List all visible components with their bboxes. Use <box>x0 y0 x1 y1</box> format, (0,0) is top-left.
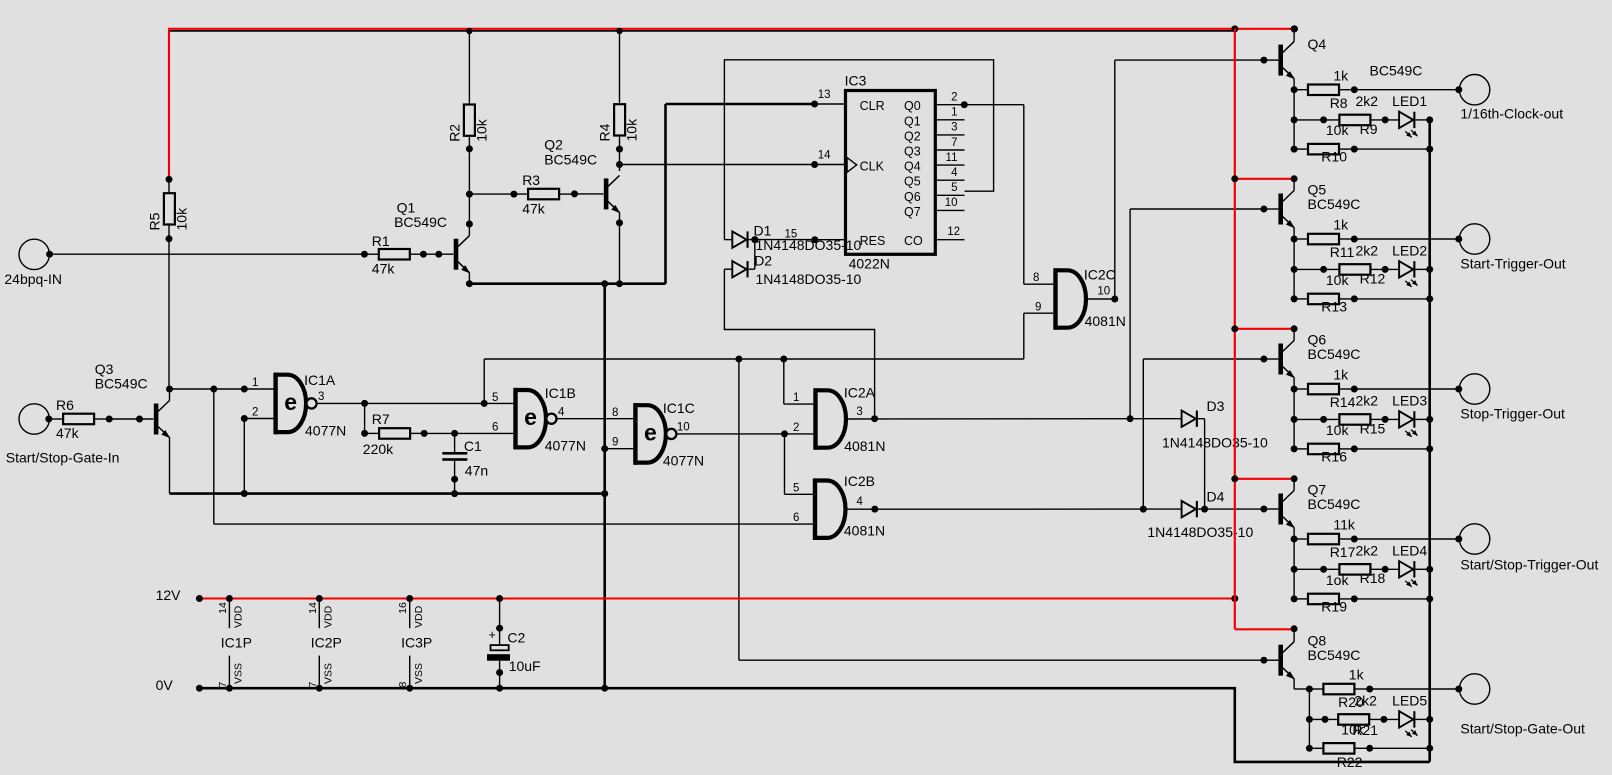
svg-text:BC549C: BC549C <box>1308 647 1361 663</box>
node Q3 base pin <box>136 416 143 423</box>
svg-text:R18: R18 <box>1360 570 1386 586</box>
node R5 bottom <box>166 235 173 242</box>
svg-text:4081N: 4081N <box>844 438 885 454</box>
svg-text:10k: 10k <box>1326 122 1350 138</box>
node R18 left pin <box>1320 566 1327 573</box>
wire +12V top rail (red) <box>168 30 170 179</box>
svg-text:BC549C: BC549C <box>1308 496 1361 512</box>
svg-text:IC2A: IC2A <box>844 385 876 401</box>
node Q5 row2 left <box>1291 266 1298 273</box>
node LED1 cathode bus <box>1426 116 1433 123</box>
svg-text:3: 3 <box>318 391 324 403</box>
svg-text:CLR: CLR <box>860 99 885 113</box>
svg-text:R6: R6 <box>56 397 74 413</box>
node Q5 collector <box>1291 175 1298 182</box>
svg-text:2: 2 <box>951 92 957 104</box>
connector Start/Stop-Gate-In <box>19 404 49 434</box>
node R22 on bus <box>1426 745 1433 752</box>
node Q4 emitter row <box>1291 86 1298 93</box>
capacitor C1 47n <box>454 433 456 452</box>
node Q8 row2 left <box>1306 716 1313 723</box>
node R7 top tee <box>361 400 368 407</box>
svg-text:Start-Trigger-Out: Start-Trigger-Out <box>1460 256 1565 272</box>
wire R6 to Q3 base <box>109 418 153 420</box>
node R2/R3 junction <box>466 191 473 198</box>
wire 0V rail <box>199 688 1429 762</box>
wire top rail lower black line <box>170 30 1235 32</box>
node Q6 row3 left <box>1291 445 1298 452</box>
svg-text:D2: D2 <box>754 252 772 268</box>
svg-text:BC549C: BC549C <box>1370 63 1423 79</box>
wire LED2 cathode <box>1415 268 1429 270</box>
node Q5 row3 left <box>1291 295 1298 302</box>
svg-text:RES: RES <box>860 234 886 248</box>
svg-text:12V: 12V <box>156 587 182 603</box>
svg-text:VDD: VDD <box>413 605 425 628</box>
xnor gate IC1C 4077N <box>633 403 637 465</box>
node IC2A out / Q5 branch <box>1127 415 1134 422</box>
node R14 right <box>1351 386 1358 393</box>
wire Q8 base stub <box>1264 659 1279 661</box>
node R22 right <box>1366 745 1373 752</box>
node C1 bottom pin <box>451 476 458 483</box>
wire IC2A output <box>847 418 1182 420</box>
connector 1/16th-Clock-out <box>1459 75 1489 105</box>
node feedback / IC2A pin1 branch <box>780 356 787 363</box>
svg-text:Q5: Q5 <box>904 175 921 189</box>
node R5 top <box>166 176 173 183</box>
and gate IC2A 4081N <box>813 388 817 450</box>
node D1 cathode <box>751 236 758 243</box>
node R19 on bus <box>1426 595 1433 602</box>
node Q0 pin <box>961 101 968 108</box>
svg-text:+: + <box>489 628 496 642</box>
node R13 right <box>1351 295 1358 302</box>
wire C1 to bus <box>454 479 456 493</box>
connector Start-Trigger-Out <box>1459 224 1489 254</box>
svg-text:BC549C: BC549C <box>544 152 597 168</box>
svg-text:9: 9 <box>612 437 618 449</box>
diode D1 1N4148 <box>732 231 746 247</box>
xnor gate IC1A 4077N <box>273 373 277 435</box>
diode D3 1N4148 <box>1182 411 1196 427</box>
svg-text:2k2: 2k2 <box>1354 692 1377 708</box>
svg-text:8: 8 <box>612 407 618 419</box>
svg-text:VDD: VDD <box>233 605 245 628</box>
wire R8 to connector <box>1354 89 1459 91</box>
svg-text:R1: R1 <box>372 233 390 249</box>
wire IC3 CLR pin stub <box>815 103 846 105</box>
wire Q8 base drop <box>738 359 740 660</box>
svg-text:Q7: Q7 <box>904 205 921 219</box>
node LED2 cathode bus <box>1426 266 1433 273</box>
node LED3 cathode bus <box>1426 416 1433 423</box>
svg-text:D4: D4 <box>1207 489 1225 505</box>
transistor Q8 BC549C <box>1278 645 1283 676</box>
resistor R14 1k <box>1308 384 1339 395</box>
led LED2 <box>1399 261 1413 277</box>
wire R10 to cathode bus <box>1354 148 1429 150</box>
node Q7 collector <box>1291 475 1298 482</box>
node R15 right pin <box>1382 416 1389 423</box>
node IC2C out <box>1111 296 1118 303</box>
node Q6 row2 left <box>1291 416 1298 423</box>
wire D1 cathode to RES <box>749 239 815 241</box>
svg-text:VSS: VSS <box>323 663 335 684</box>
svg-text:R22: R22 <box>1337 754 1363 770</box>
wire Q6 feedback loop <box>724 60 993 240</box>
wire branch to IC2B pin6 <box>213 389 215 524</box>
svg-text:1: 1 <box>252 377 258 389</box>
svg-text:47n: 47n <box>465 463 488 479</box>
svg-text:Q0: Q0 <box>904 99 921 113</box>
led LED4 <box>1399 561 1413 577</box>
wire LED1 cathode <box>1415 119 1429 121</box>
wire Q6 column <box>1293 389 1295 449</box>
wire IC3 CLK pin stub <box>815 164 846 166</box>
svg-text:CLK: CLK <box>860 160 885 174</box>
node 12V to red bus <box>1231 595 1238 602</box>
svg-text:Q4: Q4 <box>1308 36 1327 52</box>
svg-text:R11: R11 <box>1330 244 1355 260</box>
node R3 right / Q2 base <box>571 190 578 197</box>
svg-text:10k: 10k <box>1326 422 1350 438</box>
svg-text:R5: R5 <box>146 212 162 230</box>
svg-text:R4: R4 <box>597 123 613 141</box>
node pin2 tie to bus <box>241 490 248 497</box>
node Q4 collector <box>1291 25 1298 32</box>
power symbol IC1P <box>226 595 233 602</box>
node red stub Q7 bus <box>1231 475 1238 482</box>
led LED5 <box>1399 711 1413 727</box>
wire LED3 cathode <box>1415 418 1429 420</box>
node R7 right <box>421 430 428 437</box>
svg-text:6: 6 <box>793 512 799 524</box>
wire row2 lead <box>1294 119 1339 121</box>
svg-text:C1: C1 <box>464 438 482 454</box>
node Q7 base <box>1260 506 1267 513</box>
svg-text:1N4148DO35-10: 1N4148DO35-10 <box>1162 435 1268 451</box>
node R2 bottom pin <box>466 145 473 152</box>
wire row2 lead <box>1294 568 1339 570</box>
node R18 right pin <box>1382 566 1389 573</box>
svg-text:IC1A: IC1A <box>304 372 336 388</box>
wire Q4 base riser <box>1114 60 1116 299</box>
svg-text:1ok: 1ok <box>1326 572 1350 588</box>
svg-text:e: e <box>644 419 657 445</box>
node IC2B out <box>871 506 878 513</box>
svg-text:13: 13 <box>818 89 831 101</box>
power symbol IC3P <box>406 595 413 602</box>
node C1 top <box>451 430 458 437</box>
node R3 left <box>510 191 517 198</box>
node R16 on bus <box>1426 445 1433 452</box>
svg-text:1k: 1k <box>1333 217 1349 233</box>
svg-text:IC2C: IC2C <box>1084 267 1116 283</box>
svg-text:Q2: Q2 <box>544 137 563 153</box>
wire Q3 emitter bus (bold) <box>170 492 605 495</box>
svg-text:1k: 1k <box>1349 667 1365 683</box>
svg-text:Q2: Q2 <box>904 129 921 143</box>
node Q6 emitter row <box>1291 386 1298 393</box>
svg-text:LED3: LED3 <box>1392 392 1427 408</box>
node Q7 emitter row <box>1291 536 1298 543</box>
wire IC1A pin2 line <box>244 418 273 420</box>
wire Q4 base stub <box>1264 59 1279 61</box>
svg-text:D3: D3 <box>1207 398 1225 414</box>
wire IC1C out to IC2A pin2 <box>676 433 813 435</box>
svg-text:Start/Stop-Trigger-Out: Start/Stop-Trigger-Out <box>1460 556 1598 572</box>
node LED5 cathode bus <box>1426 716 1433 723</box>
svg-text:4: 4 <box>558 406 565 418</box>
capacitor C2 10uF <box>496 595 503 602</box>
svg-text:4081N: 4081N <box>844 523 885 539</box>
wire Q6 base riser <box>1142 359 1144 509</box>
svg-text:VSS: VSS <box>413 663 425 684</box>
node R15 left pin <box>1320 416 1327 423</box>
transistor Q5 BC549C <box>1278 194 1283 225</box>
svg-text:Q6: Q6 <box>904 190 921 204</box>
wire D3 cathode <box>1198 418 1205 420</box>
svg-text:e: e <box>524 404 537 430</box>
node R17 right <box>1351 536 1358 543</box>
svg-text:IC1B: IC1B <box>545 385 576 401</box>
svg-text:BC549C: BC549C <box>1308 346 1361 362</box>
svg-text:14: 14 <box>818 149 831 161</box>
svg-text:4: 4 <box>856 496 863 508</box>
svg-text:R3: R3 <box>522 172 540 188</box>
node top rail / R2 <box>466 28 472 34</box>
node R10 right <box>1351 146 1358 153</box>
wire LED cathode bus <box>1428 120 1431 762</box>
wire Q6 base stub <box>1264 358 1279 360</box>
svg-text:47k: 47k <box>522 201 546 217</box>
wire red stub Q6 <box>1235 328 1294 330</box>
wire IC2A pin1 drop <box>783 359 785 404</box>
svg-text:12: 12 <box>947 226 960 238</box>
svg-text:IC2B: IC2B <box>844 473 875 489</box>
wire Q0 to IC2C pin8 <box>964 104 1024 106</box>
diode D2 1N4148 <box>732 261 746 277</box>
wire row2 lead <box>1294 268 1339 270</box>
wire row2 lead <box>1294 418 1339 420</box>
wire row2 lead <box>1309 718 1338 720</box>
wire Q8 column <box>1308 689 1310 748</box>
svg-text:2: 2 <box>793 422 799 434</box>
svg-text:Q4: Q4 <box>904 160 921 174</box>
node Q4 row2 left <box>1291 116 1298 123</box>
power symbol IC2P <box>316 595 323 602</box>
svg-text:4077N: 4077N <box>305 422 346 438</box>
svg-text:8: 8 <box>1033 272 1039 284</box>
wire Q5 column <box>1293 239 1295 299</box>
node red stub Q5 bus <box>1231 175 1238 182</box>
ic IC3 4022N box <box>846 91 936 255</box>
svg-text:220k: 220k <box>363 441 394 457</box>
svg-text:Start/Stop-Gate-In: Start/Stop-Gate-In <box>6 449 120 465</box>
svg-text:LED1: LED1 <box>1392 93 1427 109</box>
node Q7 row3 left <box>1291 595 1298 602</box>
svg-text:1: 1 <box>951 107 957 119</box>
wire red stub Q7 <box>1235 478 1294 480</box>
node R12 right pin <box>1382 266 1389 273</box>
svg-text:5: 5 <box>951 182 957 194</box>
transistor Q7 BC549C <box>1278 494 1283 525</box>
node ground drop on Q3 bus <box>601 490 608 497</box>
wire IC2C pin9 riser <box>1023 313 1025 359</box>
node R1 left <box>361 251 368 258</box>
svg-text:11: 11 <box>946 152 958 164</box>
svg-text:10k: 10k <box>624 118 640 142</box>
resistor R2 <box>464 105 475 136</box>
resistor R18 2k2 <box>1339 564 1370 575</box>
wire feedback riser <box>483 359 485 403</box>
wire R1 to Q1 base <box>423 253 453 255</box>
svg-text:BC549C: BC549C <box>394 214 447 230</box>
node RES pin <box>811 236 818 243</box>
svg-text:IC2P: IC2P <box>311 635 342 651</box>
svg-text:LED2: LED2 <box>1392 242 1427 258</box>
wire Q3 collector to IC1A pin1 <box>170 388 274 390</box>
svg-text:10k: 10k <box>473 118 489 142</box>
svg-text:IC1C: IC1C <box>663 400 695 416</box>
svg-text:e: e <box>284 389 297 415</box>
wire D1-D2 cathode tie <box>754 240 756 270</box>
connector Start/Stop-Trigger-Out <box>1459 524 1489 554</box>
svg-text:2: 2 <box>252 406 258 418</box>
resistor R10 10k <box>1308 144 1339 155</box>
svg-text:5: 5 <box>492 392 498 404</box>
wire CLK line <box>620 164 815 166</box>
svg-text:9: 9 <box>1035 302 1041 314</box>
wire Q7 column <box>1293 539 1295 599</box>
node feedback / Q8 branch <box>735 356 742 363</box>
wire R16 to cathode bus <box>1354 448 1429 450</box>
resistor R9 2k2 <box>1339 115 1370 126</box>
node R8 right <box>1351 86 1358 93</box>
wire Q5 base stub <box>1264 208 1279 210</box>
connector Start/Stop-Gate-Out <box>1459 674 1489 704</box>
svg-text:2k2: 2k2 <box>1356 542 1379 558</box>
svg-text:4: 4 <box>951 167 958 179</box>
node Q6 collector <box>1291 325 1298 332</box>
wire Q2 base <box>575 193 604 195</box>
node R7 left <box>361 430 368 437</box>
node R12 left pin <box>1320 266 1327 273</box>
wire IC1A pin2 tie <box>243 419 245 494</box>
node IC1A pin2 <box>241 415 248 422</box>
wire +12V red bus vertical <box>1234 29 1236 629</box>
node Q2 collector / CLK <box>616 161 623 168</box>
node Q1 base <box>435 251 442 258</box>
node LED4 cathode bus <box>1426 566 1433 573</box>
wire 12V rail (red) <box>199 598 1234 600</box>
node R9 right pin <box>1382 116 1389 123</box>
wire R22 to cathode bus <box>1370 747 1430 749</box>
svg-text:1k: 1k <box>1333 67 1349 83</box>
resistor R6 <box>63 414 94 425</box>
xnor gate IC1B 4077N <box>513 388 517 450</box>
node ground drop on 0V <box>601 685 608 692</box>
svg-text:R16: R16 <box>1321 449 1347 465</box>
node 0V left end <box>196 685 203 692</box>
resistor R12 2k2 <box>1339 264 1370 275</box>
transistor Q3 BC549C <box>154 404 159 435</box>
node R21 left pin <box>1322 716 1329 723</box>
svg-text:BC549C: BC549C <box>95 376 148 392</box>
svg-text:IC1P: IC1P <box>221 635 252 651</box>
wire red stub Q8 <box>1235 628 1294 630</box>
svg-text:5: 5 <box>793 482 799 494</box>
node Q6 base <box>1260 356 1267 363</box>
wire R7 to IC1B pin6 <box>424 432 513 434</box>
svg-text:2k2: 2k2 <box>1356 93 1379 109</box>
svg-text:10k: 10k <box>1326 272 1350 288</box>
wire R5 to Q3 collector <box>168 239 170 389</box>
svg-text:0V: 0V <box>156 677 174 693</box>
resistor R1 <box>379 249 410 260</box>
node R19 right <box>1351 595 1358 602</box>
and gate IC2B 4081N <box>813 478 817 540</box>
svg-text:10: 10 <box>677 421 690 433</box>
node top rail end at Q4 collector <box>1291 25 1298 32</box>
svg-text:10: 10 <box>1097 286 1110 298</box>
resistor R3 <box>528 189 559 200</box>
node pin1 branch B <box>241 386 248 393</box>
svg-text:R2: R2 <box>446 124 462 142</box>
node Q8 base <box>1260 657 1267 664</box>
wire 24bpq-IN to R1 <box>50 253 365 255</box>
node IC2A out <box>871 415 878 422</box>
node top rail / R4 <box>616 28 622 34</box>
svg-text:10: 10 <box>945 197 958 209</box>
resistor R13 10k <box>1308 294 1339 305</box>
transistor Q2 BC549C <box>604 178 609 209</box>
resistor R4 <box>614 104 625 135</box>
svg-text:Stop-Trigger-Out: Stop-Trigger-Out <box>1460 406 1565 422</box>
svg-text:C2: C2 <box>507 630 525 646</box>
wire R13 to cathode bus <box>1354 298 1429 300</box>
wire R20 to connector <box>1370 688 1459 690</box>
node pin1 branch A <box>210 386 217 393</box>
node Q1 emitter on bus <box>466 280 473 287</box>
svg-text:4077N: 4077N <box>545 437 586 453</box>
svg-text:VDD: VDD <box>323 605 335 628</box>
led LED3 <box>1399 411 1413 427</box>
svg-text:1N4148DO35-10: 1N4148DO35-10 <box>1147 524 1253 540</box>
svg-text:R19: R19 <box>1321 599 1347 615</box>
svg-text:4022N: 4022N <box>849 256 890 272</box>
svg-text:R8: R8 <box>1330 95 1348 111</box>
wire IC2B output <box>846 508 1182 510</box>
transistor Q4 BC549C <box>1278 45 1283 76</box>
wire LED5 cathode <box>1415 718 1429 720</box>
svg-text:R17: R17 <box>1330 544 1356 560</box>
svg-text:1k: 1k <box>1333 367 1349 383</box>
wire Q8 emitter jog <box>1294 688 1309 690</box>
node IC1A out / pin5 branch <box>481 400 488 407</box>
transistor Q6 BC549C <box>1278 344 1283 375</box>
wire Q7 base stub <box>1264 508 1279 510</box>
svg-text:BC549C: BC549C <box>1308 196 1361 212</box>
svg-text:11k: 11k <box>1333 517 1356 533</box>
svg-text:R10: R10 <box>1321 149 1347 165</box>
wire IC2B pin5 drop <box>784 434 786 494</box>
node D3/D4 cathode tie <box>1201 506 1208 513</box>
svg-text:R15: R15 <box>1360 420 1386 436</box>
node R11 right <box>1351 236 1358 243</box>
node Q5 emitter row <box>1291 236 1298 243</box>
